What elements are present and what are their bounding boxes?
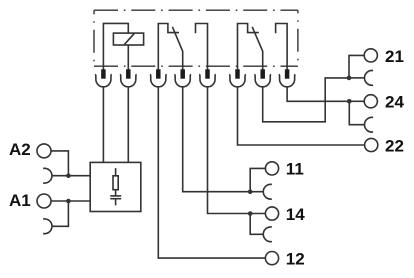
terminal A2 <box>37 144 51 158</box>
contact 1 NC fixed contact (pin 3) <box>158 24 179 70</box>
coil K1 <box>113 33 143 45</box>
junction node n11 <box>248 189 253 194</box>
socket contact 2 <box>120 74 137 87</box>
pin 3 <box>156 69 161 78</box>
pin 7 <box>260 69 265 78</box>
terminal 22 <box>365 138 378 151</box>
contact 2 moving blade (pin 7) <box>252 27 263 70</box>
svg-text:A2: A2 <box>9 140 31 159</box>
junction node n21 <box>347 76 352 81</box>
svg-text:21: 21 <box>385 47 404 66</box>
junction node A1 <box>66 199 71 204</box>
wire node A2 to suppressor box <box>68 175 90 177</box>
spare socket below 24 <box>364 117 373 132</box>
spare socket below 14 <box>263 227 272 242</box>
wire node 11 to spare socket <box>250 191 263 193</box>
wire node 14 to spare socket <box>250 214 263 235</box>
pin 1 <box>101 69 106 78</box>
wire pin8 to node 24 <box>287 87 349 102</box>
socket contact 6 <box>229 74 246 87</box>
wire pin6 to terminal 22 <box>238 87 365 145</box>
pin 8 <box>285 69 290 78</box>
wire node 24 to spare socket <box>349 101 364 124</box>
svg-text:14: 14 <box>286 205 305 224</box>
suppressor module box <box>90 162 141 211</box>
pin 5 <box>205 69 210 78</box>
contact 2 NC fixed contact (pin 6) <box>238 24 259 70</box>
svg-text:A1: A1 <box>9 191 31 210</box>
socket contact 4 <box>174 74 191 87</box>
wire A2 spare socket to node A2 <box>52 175 68 177</box>
spare socket below 11 <box>263 184 272 199</box>
wire node 21 to spare socket <box>349 77 365 79</box>
terminal 11 <box>265 162 278 175</box>
contact 1 moving blade (pin 4) <box>172 27 182 70</box>
spare socket below 21 <box>364 70 373 85</box>
socket contact 8 <box>279 74 296 87</box>
suppressor capacitor C <box>110 190 121 206</box>
dashed relay module outline <box>94 10 298 66</box>
wire terminal A2 to node A2 <box>51 151 68 176</box>
socket contact 3 <box>150 74 167 87</box>
socket contact 5 <box>199 74 216 87</box>
wire coil bottom to pin2 <box>127 45 129 70</box>
wire node 21 to terminal 21 <box>349 55 364 78</box>
wire pin1 to coil top <box>103 23 128 69</box>
wire node A1 to A1 spare socket <box>52 201 68 226</box>
pin 4 <box>180 69 185 78</box>
junction node n24 <box>347 99 352 104</box>
wire node 24 to terminal 24 <box>349 100 364 102</box>
svg-text:12: 12 <box>286 250 305 269</box>
svg-text:24: 24 <box>385 93 404 112</box>
terminal A1 <box>37 194 51 208</box>
terminal 24 <box>364 95 377 108</box>
contact 2 NO fixed contact hook (pin 8) <box>276 24 288 70</box>
junction node A2 <box>66 173 71 178</box>
socket contact 1 <box>95 74 112 87</box>
spare socket below A1 <box>43 219 52 234</box>
contact 1 NO fixed contact hook (pin 5) <box>196 24 208 70</box>
wire node 11 to terminal 11 <box>250 168 265 191</box>
junction node n14 <box>248 211 253 216</box>
terminal 12 <box>265 252 278 265</box>
wire pin7 to node 21 <box>263 78 349 122</box>
wire pin2 to suppressor box <box>127 87 129 163</box>
pin 2 <box>126 69 131 78</box>
socket contact 7 <box>254 74 271 87</box>
wire pin5 to terminal 14 <box>208 87 266 214</box>
wire pin1 to suppressor box <box>102 87 104 163</box>
terminal 21 <box>364 49 377 62</box>
wire terminal A1 to suppressor box <box>51 200 90 202</box>
pin 6 <box>235 69 240 78</box>
spare socket below A2 <box>43 168 52 183</box>
suppressor resistor R <box>113 168 118 190</box>
wire pin4 to node 11 <box>183 87 251 192</box>
svg-text:22: 22 <box>385 136 404 155</box>
svg-text:11: 11 <box>286 160 304 179</box>
wire pin3 to terminal 12 <box>158 87 265 258</box>
terminal 14 <box>265 207 278 220</box>
